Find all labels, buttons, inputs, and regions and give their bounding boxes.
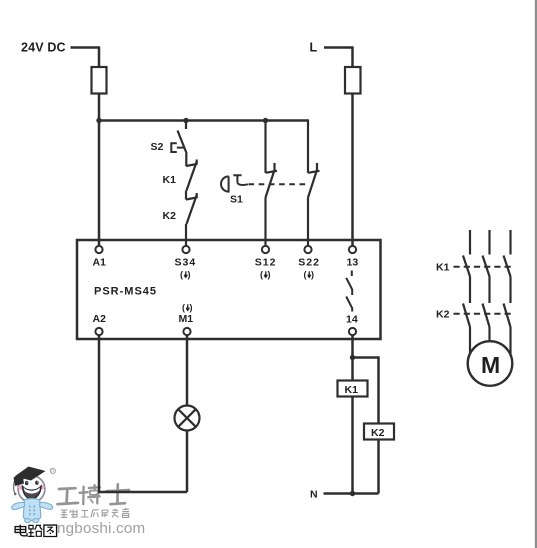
label 电路图 drawn on top bbox=[15, 525, 57, 537]
switch S1 estop T handle bbox=[233, 175, 241, 182]
switch S1 contact1 blade bbox=[266, 163, 275, 198]
svg-text:K1: K1 bbox=[436, 262, 450, 274]
contact K1 main pole 3 blade bbox=[504, 256, 511, 277]
svg-text:14: 14 bbox=[346, 314, 358, 326]
small gray tagline zhineng gongchang fuwushang bbox=[61, 508, 130, 518]
wire phase L1 top bbox=[469, 230, 471, 255]
wire fuse to A1 bbox=[98, 94, 101, 246]
arm left bbox=[12, 502, 25, 509]
mortarboard base bbox=[14, 475, 25, 487]
wire down to fuse F2 bbox=[351, 46, 354, 67]
svg-text:A2: A2 bbox=[93, 313, 107, 325]
eyes bbox=[25, 481, 28, 485]
svg-text:L: L bbox=[310, 41, 318, 55]
switch S2 actuator bracket bbox=[171, 143, 183, 152]
junction dot S34 branch bbox=[183, 118, 188, 123]
terminal 14 bbox=[349, 328, 356, 335]
buttons bbox=[29, 506, 30, 508]
mouth bbox=[22, 486, 41, 499]
watermark group (under circuit) bbox=[12, 467, 146, 538]
lamp H1 cross bbox=[178, 409, 196, 427]
svg-text:24V DC: 24V DC bbox=[21, 41, 66, 55]
contact 13-14 internal blade 2 bbox=[346, 297, 352, 312]
svg-text:K1: K1 bbox=[163, 174, 177, 186]
contact K2 main pole 3 blade bbox=[504, 304, 511, 328]
contact 13-14 internal tick bbox=[351, 271, 353, 277]
contact 13-14 internal blade 1 bbox=[346, 278, 352, 295]
svg-text:K2: K2 bbox=[163, 210, 177, 222]
wire phase L3 top bbox=[509, 230, 511, 255]
svg-text:S12: S12 bbox=[255, 257, 277, 269]
wire S2 to K1 contact bbox=[185, 154, 187, 167]
wire pole3 mid bbox=[509, 277, 511, 304]
wire K1 to K2 contact bbox=[185, 191, 187, 200]
junction dot N bbox=[350, 491, 355, 496]
junction dot S12 branch bbox=[263, 118, 268, 123]
junction dot left bus bbox=[96, 118, 101, 123]
big gray char BO bbox=[80, 485, 100, 504]
wire pole3 to motor bbox=[509, 327, 511, 356]
coil K2 box bbox=[364, 424, 394, 440]
terminal S22 bbox=[304, 246, 311, 253]
switch S1 dashed mechanical link bbox=[249, 183, 307, 185]
junction dot 14 branch bbox=[350, 355, 355, 360]
wire K2 to S34 bbox=[185, 224, 187, 246]
svg-text:S2: S2 bbox=[151, 141, 164, 153]
mascot doctor figure bbox=[12, 467, 56, 523]
switch S2 reset button blade bbox=[178, 131, 187, 154]
svg-text:PSR-MS45: PSR-MS45 bbox=[94, 286, 157, 298]
relay U1 PSR-MS45 body bbox=[77, 240, 381, 339]
wire A2 down and right bbox=[99, 335, 187, 492]
wire bus corner to S1 contact 2 bbox=[307, 119, 309, 172]
wire K2 coil to N bbox=[377, 440, 380, 494]
wire lamp to bottom bbox=[186, 431, 189, 493]
wire S1c2 to S22 bbox=[307, 198, 309, 246]
svg-text:S1: S1 bbox=[230, 194, 243, 206]
wire pole2 mid bbox=[488, 277, 490, 304]
svg-text:K1: K1 bbox=[345, 384, 359, 396]
wire pole2 to motor bbox=[488, 327, 490, 342]
wire fuse to 13 bbox=[351, 94, 354, 246]
contact K2 main pole 1 blade bbox=[463, 304, 470, 328]
wire L lead bbox=[324, 46, 353, 49]
coil K1 box bbox=[338, 381, 368, 397]
svg-text:ngboshi.com: ngboshi.com bbox=[57, 520, 145, 537]
contact K2 main dashed link bbox=[454, 313, 512, 315]
svg-text:13: 13 bbox=[347, 257, 359, 269]
char DIAN bbox=[19, 525, 21, 533]
svg-text:M: M bbox=[481, 352, 500, 378]
switch S1 contact2 tick bbox=[308, 171, 320, 173]
tassel bbox=[13, 481, 15, 494]
contact K2 aux blade bbox=[187, 195, 197, 224]
wire horizontal bus bbox=[99, 119, 308, 122]
switch S1 contact2 blade bbox=[308, 163, 317, 198]
wire S1c1 to S12 bbox=[264, 198, 266, 246]
svg-text:K2: K2 bbox=[371, 427, 385, 439]
big gray char SHI bbox=[107, 484, 130, 504]
big gray char GONG bbox=[58, 488, 79, 504]
contact K1 main pole 2 blade bbox=[483, 256, 490, 277]
wire pole1 to motor bbox=[469, 327, 471, 355]
contact K2 main pole 2 blade bbox=[483, 304, 490, 328]
terminal A2 bbox=[95, 328, 102, 335]
mortarboard board bbox=[15, 467, 46, 481]
wire K1 coil to N bbox=[351, 397, 354, 494]
body bbox=[23, 499, 40, 521]
contact K2 aux tick bbox=[186, 193, 197, 200]
registered mark bbox=[50, 468, 55, 473]
svg-text:N: N bbox=[310, 489, 318, 501]
lamp H1 body bbox=[175, 406, 200, 431]
char LU bbox=[29, 525, 33, 529]
wire bus to S1 contact 1 bbox=[264, 121, 266, 173]
image right edge line bbox=[535, 0, 537, 548]
wire N bbox=[324, 492, 379, 495]
svg-text:M1: M1 bbox=[179, 313, 194, 325]
terminal M1 bbox=[183, 328, 190, 335]
fuse F2 bbox=[345, 67, 361, 94]
wire branch to K2 coil bbox=[353, 358, 379, 424]
wire phase L2 top bbox=[488, 230, 490, 255]
switch S1 link to dashed bbox=[237, 183, 248, 185]
contact K1 main pole 1 blade bbox=[463, 256, 470, 277]
wire 14 down bbox=[351, 335, 354, 380]
wire bus to S2 bbox=[185, 121, 187, 130]
head bbox=[18, 476, 45, 503]
wire 24VDC lead bbox=[71, 46, 100, 49]
wire pole1 mid bbox=[469, 277, 471, 304]
wire down to fuse F1 bbox=[98, 46, 101, 67]
feet bbox=[25, 519, 31, 523]
contact K1 aux tick bbox=[186, 160, 197, 167]
char TU bbox=[44, 525, 57, 536]
contact K1 main dashed link bbox=[454, 266, 512, 268]
wire M1 down to lamp bbox=[186, 335, 189, 405]
terminal 13 bbox=[349, 246, 356, 253]
switch S1 estop mushroom head bbox=[221, 176, 229, 191]
terminal S12 bbox=[262, 246, 269, 253]
svg-text:K2: K2 bbox=[436, 309, 450, 321]
svg-text:S34: S34 bbox=[175, 257, 197, 269]
arrow glyph reinforcement for (down) marks bbox=[184, 271, 311, 310]
contact K1 aux blade bbox=[187, 162, 197, 191]
motor M body bbox=[468, 341, 513, 386]
arm right bbox=[40, 502, 53, 509]
terminal S34 bbox=[182, 246, 189, 253]
switch S1 contact1 tick bbox=[266, 171, 278, 173]
cheeks bbox=[18, 486, 23, 490]
terminal A1 bbox=[95, 246, 102, 253]
svg-text:A1: A1 bbox=[93, 257, 107, 269]
fuse F1 bbox=[92, 67, 107, 94]
svg-text:S22: S22 bbox=[298, 257, 320, 269]
